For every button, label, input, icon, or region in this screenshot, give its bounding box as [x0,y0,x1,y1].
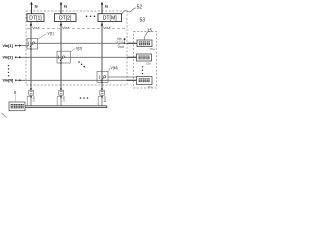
wire column M [101,22,103,90]
annotation Vth on comparator 1 input [116,37,126,44]
wire column 1 [30,22,32,90]
wire column M to bus [101,95,103,106]
arrowhead into DT[M] [101,23,104,26]
label Io[1] [30,96,32,98]
switch box column 2 [59,90,64,95]
wire column 2 [60,22,62,90]
cell transistor (1,1) [27,39,38,50]
svg-text:Vout: Vout [118,45,124,49]
svg-text:Io[2]: Io[2] [62,96,66,102]
junction dot column 1 [30,88,32,90]
select riser column 2 [57,96,60,105]
svg-text:Io[1]: Io[1] [32,96,36,102]
select riser column M [98,96,101,105]
ellipsis between DT[2] and DT[M] [86,15,96,17]
svg-text:V[M]: V[M] [111,66,118,70]
reference numeral 52 with leader [122,5,142,14]
control bus line 1 [25,105,107,107]
dashed block 53 (comparator block) [134,32,157,89]
svg-text:DT[1]: DT[1] [29,16,42,22]
wire column 2 to bus [60,95,62,106]
svg-text:Is: Is [105,3,108,8]
junction dot column M [101,88,103,90]
dashed block 52 (sensor array) [26,11,127,85]
comparator 2 input stub [127,56,137,58]
current arrow Is column 2 [60,2,68,14]
comparator 3 input stub [127,79,137,81]
wire column 1 to bus [30,95,32,106]
leader to V[M] [108,68,110,72]
cell transistor (N,M) [97,72,108,84]
diagonal ellipsis in array [78,61,85,67]
svg-text:Vth: Vth [117,37,122,41]
vertical ellipsis left [8,65,9,77]
svg-text:V[1]: V[1] [48,32,54,36]
arrowhead into DT[2] [60,23,63,26]
reference numeral 6 with leader [14,90,17,102]
comparator box 3 [137,77,153,85]
svg-text:53: 53 [140,18,146,24]
svg-text:15: 15 [147,28,153,33]
svg-text:Is: Is [35,3,38,8]
svg-text:Io[M]: Io[M] [103,96,107,102]
leader to V[2] [70,48,75,52]
wire cell(N,M) output to comparator 3 [108,76,137,78]
node label Vout column M [103,25,112,30]
control bus line 2 [25,106,107,108]
svg-text:52: 52 [137,5,143,11]
svg-text:Vin[1]: Vin[1] [3,44,14,48]
cell transistor (2,2) [57,51,70,64]
svg-text:V[2]: V[2] [76,47,82,51]
comparator box 1 [137,40,152,47]
ellipsis bottom between columns [80,97,89,99]
svg-text:DT[2]: DT[2] [59,16,72,22]
reference numeral 15 with leader [144,28,152,40]
svg-text:Vout: Vout [62,26,69,30]
svg-text:Vout: Vout [103,26,110,30]
annotation Vout on comparator 1 input [118,44,124,50]
label Io[2] [60,96,62,98]
comparator 1 input stub [127,42,137,44]
junction dot column 2 [60,88,62,90]
select riser column 1 [27,96,30,105]
svg-text:DT[M]: DT[M] [103,16,117,22]
detector DT[2] [55,14,77,22]
svg-text:Vin[N]: Vin[N] [3,79,15,83]
svg-text:Vin[2]: Vin[2] [3,56,14,60]
svg-text:15a: 15a [150,47,155,51]
label Io[M] [101,96,103,98]
control unit box [9,102,25,111]
dashed divider under detector row [27,27,127,29]
stray lead bottom-left [2,113,7,118]
node label Vout column 1 [32,25,41,30]
current arrow Is column 1 [30,2,38,14]
svg-text:15b: 15b [146,62,151,66]
node label Vout column 2 [62,25,71,30]
wire row 2 (Vin[2]) [15,56,137,58]
svg-text:15n: 15n [148,85,153,89]
arrowhead into DT[1] [30,23,33,26]
wire row N (Vin[N]) [15,79,137,81]
vertical ellipsis in block 53 [142,66,143,74]
leader to V[1] [38,34,47,40]
switch box column M [100,90,105,95]
wire row 1 (Vin[1]) [15,43,137,46]
svg-text:Vout: Vout [32,26,39,30]
svg-text:Is: Is [64,3,67,8]
comparator box 2 [137,54,152,61]
current arrow Is column M [101,2,109,14]
detector DT[M] [98,14,122,22]
switch box column 1 [29,90,34,95]
detector DT[1] [27,14,44,22]
